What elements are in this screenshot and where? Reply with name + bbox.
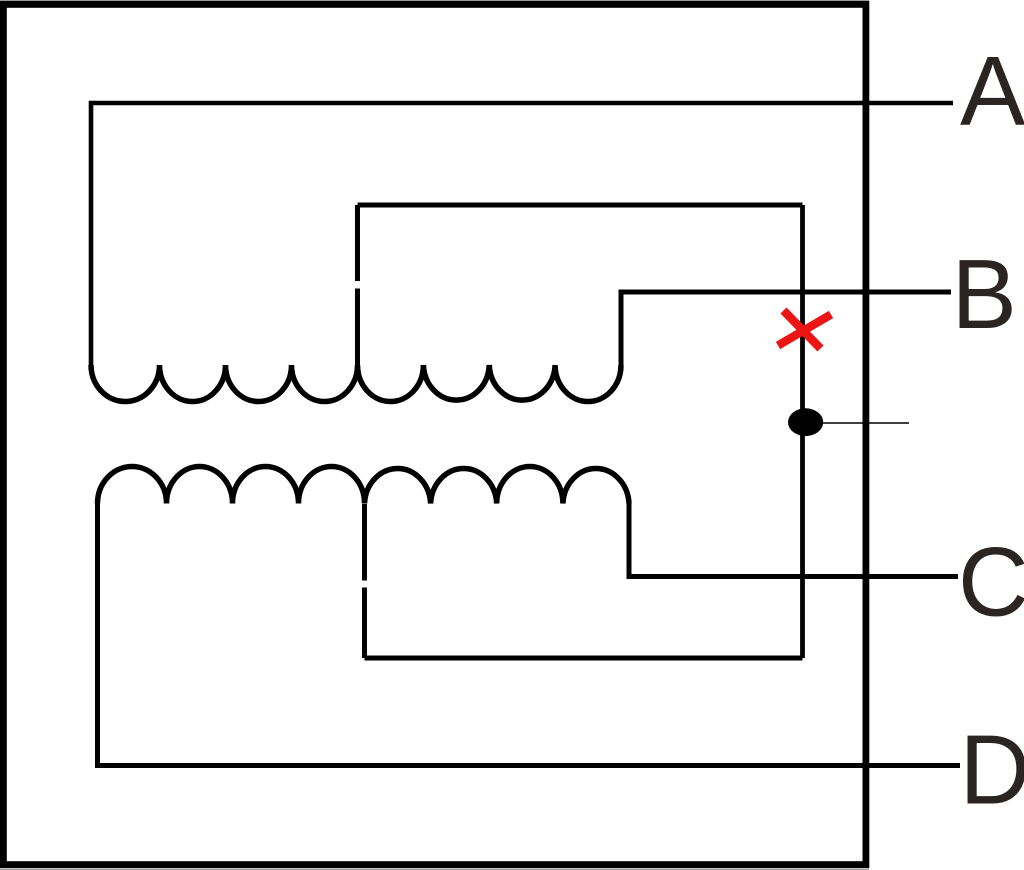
wire inner loop top — [358, 203, 803, 208]
wire inner loop bottom — [365, 656, 803, 661]
winding L2 bottom coil — [98, 467, 630, 504]
gray bottom edge — [0, 868, 869, 870]
wire inner loop right vertical — [800, 205, 805, 658]
svg-text:B: B — [952, 239, 1017, 349]
svg-text:A: A — [960, 36, 1024, 146]
wire B — [621, 292, 951, 365]
wire A — [91, 103, 953, 365]
svg-text:C: C — [958, 527, 1024, 637]
wire D — [98, 504, 961, 766]
winding L1 top coil — [91, 365, 621, 402]
fault X mark — [778, 311, 831, 349]
thin stub line from junction — [823, 422, 909, 424]
gray top edge — [0, 0, 869, 2]
wire top tap — [355, 205, 360, 365]
svg-text:D: D — [960, 715, 1024, 825]
junction dot — [788, 408, 823, 436]
wire C — [629, 504, 958, 577]
wire bottom tap — [362, 504, 367, 658]
